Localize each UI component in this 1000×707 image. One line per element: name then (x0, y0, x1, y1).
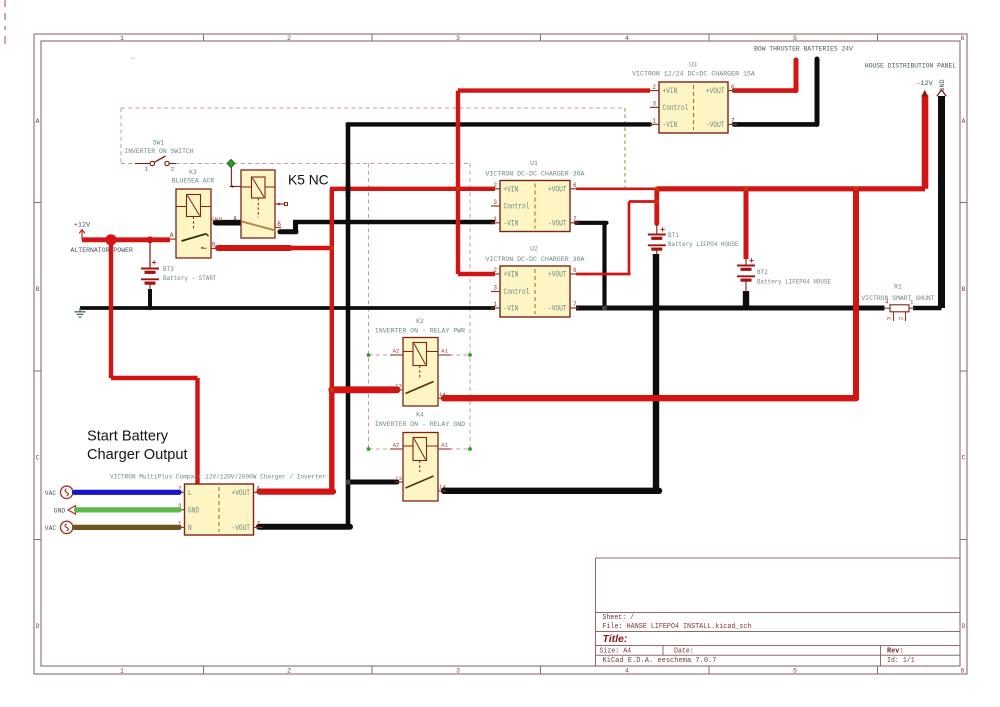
svg-text:1: 1 (120, 35, 124, 42)
svg-text:Sheet: /: Sheet: / (603, 614, 635, 622)
svg-text:BT1: BT1 (668, 232, 679, 240)
svg-text:7: 7 (573, 301, 577, 308)
svg-text:+: + (660, 225, 665, 235)
svg-text:Battery - START: Battery - START (163, 275, 217, 283)
svg-text:File: HANSE LIFEPO4 INSTALL.ki: File: HANSE LIFEPO4 INSTALL.kicad_sch (603, 623, 752, 631)
svg-text:+: + (749, 256, 754, 266)
svg-text:Control: Control (663, 105, 689, 113)
svg-text:-VOUT: -VOUT (548, 220, 567, 228)
svg-text:-VIN: -VIN (504, 306, 519, 314)
svg-text:-VOUT: -VOUT (548, 306, 567, 314)
svg-text:BOW THRUSTER BATTERIES 24V: BOW THRUSTER BATTERIES 24V (754, 46, 854, 54)
svg-text:Start Battery: Start Battery (87, 429, 169, 445)
svg-text:2: 2 (493, 182, 497, 189)
svg-text:A2: A2 (393, 442, 400, 449)
svg-text:-VIN: -VIN (504, 220, 519, 228)
svg-text:+VOUT: +VOUT (706, 88, 725, 96)
svg-text:+VOUT: +VOUT (232, 490, 251, 498)
svg-text:1: 1 (493, 301, 497, 308)
svg-text:U2: U2 (530, 246, 538, 254)
svg-text:Battery LIFEPO4 HOUSE: Battery LIFEPO4 HOUSE (757, 278, 831, 286)
svg-text:GND: GND (211, 216, 223, 223)
svg-text:C: C (962, 454, 966, 461)
svg-text:B: B (962, 286, 966, 293)
svg-text:A: A (170, 232, 174, 239)
svg-text:A: A (36, 118, 40, 125)
svg-text:D: D (962, 623, 966, 630)
svg-text:Date:: Date: (674, 648, 694, 656)
svg-text:-VOUT: -VOUT (706, 122, 725, 130)
svg-text:+VOUT: +VOUT (548, 186, 567, 194)
svg-text:~: ~ (130, 55, 135, 64)
svg-text:VICTRON 12/24 DC=DC CHARGER 15: VICTRON 12/24 DC=DC CHARGER 15A (632, 71, 756, 79)
svg-text:U1: U1 (530, 160, 538, 168)
svg-text:Control: Control (504, 289, 530, 297)
svg-text:2: 2 (171, 166, 175, 173)
svg-text:Id: 1/1: Id: 1/1 (887, 657, 915, 665)
svg-text:1: 1 (120, 668, 124, 675)
svg-text:N: N (188, 525, 192, 533)
svg-text:Rev:: Rev: (887, 648, 903, 656)
svg-text:Charger Output: Charger Output (87, 447, 188, 463)
svg-text:2: 2 (898, 317, 905, 320)
svg-text:1: 1 (910, 298, 914, 305)
svg-text:-VOUT: -VOUT (232, 525, 251, 533)
svg-text:-12V: -12V (916, 80, 933, 88)
svg-text:VICTRON DC-DC CHARGER 30A: VICTRON DC-DC CHARGER 30A (486, 171, 586, 179)
svg-text:GND: GND (54, 507, 65, 515)
svg-text:B: B (212, 241, 216, 248)
svg-text:2: 2 (287, 668, 291, 675)
svg-text:1: 1 (652, 118, 656, 125)
svg-text:A: A (962, 118, 966, 125)
svg-text:+: + (151, 258, 156, 268)
svg-text:BT3: BT3 (163, 266, 174, 274)
svg-text:VAC: VAC (45, 490, 56, 498)
svg-text:14: 14 (439, 484, 446, 491)
svg-text:U3: U3 (689, 62, 697, 70)
svg-text:Title:: Title: (603, 633, 628, 645)
svg-text:3: 3 (456, 35, 460, 42)
svg-text:D: D (36, 623, 40, 630)
svg-text:GND: GND (939, 79, 947, 91)
svg-text:K3: K3 (189, 169, 197, 177)
svg-text:Size: A4: Size: A4 (600, 648, 632, 656)
svg-text:+12V: +12V (74, 222, 91, 230)
svg-text:C: C (36, 454, 40, 461)
svg-text:6: 6 (961, 35, 965, 42)
svg-text:6: 6 (961, 668, 965, 675)
svg-text:VICTRON MultiPlus Compact 12V/: VICTRON MultiPlus Compact 12V/120V/2000W… (110, 474, 326, 481)
svg-text:SW1: SW1 (153, 139, 165, 147)
svg-text:4: 4 (625, 35, 629, 42)
svg-text:1: 1 (493, 216, 497, 223)
svg-text:4: 4 (885, 298, 889, 305)
svg-text:VAC: VAC (45, 525, 56, 533)
svg-text:ALTERNATOR POWER: ALTERNATOR POWER (71, 247, 133, 255)
svg-text:6: 6 (257, 486, 261, 493)
svg-text:A: A (233, 215, 237, 222)
svg-text:B: B (36, 286, 40, 293)
svg-text:KiCad E.D.A. eeschema 7.0.7: KiCad E.D.A. eeschema 7.0.7 (603, 657, 717, 665)
svg-text:+VIN: +VIN (663, 88, 678, 96)
svg-text:VICTRON DC-DC CHARGER 30A: VICTRON DC-DC CHARGER 30A (486, 256, 586, 264)
svg-text:7: 7 (573, 216, 577, 223)
svg-text:BT2: BT2 (757, 269, 768, 277)
svg-text:K5 NC: K5 NC (288, 173, 329, 188)
svg-text:-VIN: -VIN (663, 122, 678, 130)
svg-text:13: 13 (395, 383, 402, 390)
svg-text:3: 3 (493, 285, 497, 292)
svg-text:K4: K4 (416, 412, 424, 420)
svg-text:HOUSE DISTRIBUTION PANEL: HOUSE DISTRIBUTION PANEL (865, 63, 956, 71)
svg-text:A1: A1 (441, 348, 448, 355)
svg-text:+VIN: +VIN (504, 272, 519, 280)
svg-text:INVERTER ON SWITCH: INVERTER ON SWITCH (124, 148, 193, 156)
svg-text:2: 2 (493, 267, 497, 274)
svg-text:6: 6 (731, 84, 735, 91)
svg-text:13: 13 (395, 475, 402, 482)
svg-text:1: 1 (145, 166, 149, 173)
svg-text:5: 5 (793, 35, 797, 42)
svg-text:INVERTER ON - RELAY GND: INVERTER ON - RELAY GND (375, 421, 465, 429)
svg-text:7: 7 (257, 521, 261, 528)
svg-text:+VIN: +VIN (504, 186, 519, 194)
svg-text:VICTRON SMART SHUNT: VICTRON SMART SHUNT (861, 295, 934, 303)
svg-text:2: 2 (652, 84, 656, 91)
svg-text:+VOUT: +VOUT (548, 272, 567, 280)
svg-text:14: 14 (439, 391, 446, 398)
svg-text:6: 6 (573, 267, 577, 274)
svg-text:A1: A1 (441, 442, 448, 449)
svg-text:5: 5 (793, 668, 797, 675)
svg-text:3: 3 (652, 101, 656, 108)
svg-text:Control: Control (504, 204, 530, 212)
svg-text:7: 7 (731, 118, 735, 125)
svg-text:BLUESEA ACR: BLUESEA ACR (172, 178, 214, 186)
svg-text:6: 6 (573, 182, 577, 189)
svg-text:3: 3 (456, 668, 460, 675)
svg-text:Battery LIFPO4 HOUSE: Battery LIFPO4 HOUSE (668, 241, 739, 249)
svg-text:GND: GND (188, 507, 199, 515)
svg-text:INVERTER ON - RELAY PWR: INVERTER ON - RELAY PWR (375, 327, 465, 335)
svg-text:3: 3 (493, 199, 497, 206)
svg-text:A2: A2 (393, 348, 400, 355)
svg-text:2: 2 (287, 35, 291, 42)
svg-text:K2: K2 (416, 318, 424, 326)
svg-text:B: B (277, 221, 281, 228)
svg-text:4: 4 (625, 668, 629, 675)
svg-text:3: 3 (886, 317, 893, 320)
svg-text:L: L (188, 490, 192, 498)
svg-text:R1: R1 (894, 283, 902, 291)
